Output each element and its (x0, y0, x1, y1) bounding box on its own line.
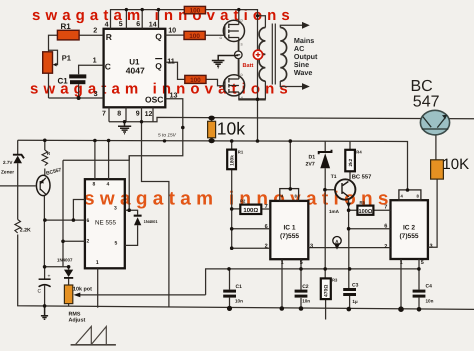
svg-text:BC 557: BC 557 (352, 173, 372, 180)
svg-text:(7)555: (7)555 (280, 233, 299, 240)
svg-text:5 to 15V: 5 to 15V (158, 133, 177, 139)
svg-text:3: 3 (114, 206, 117, 212)
svg-text:7: 7 (102, 111, 106, 118)
svg-text:R1: R1 (238, 150, 244, 155)
svg-text:Q: Q (155, 32, 162, 42)
svg-text:100: 100 (190, 8, 201, 15)
svg-text:Wave: Wave (294, 68, 313, 77)
svg-text:R: R (106, 32, 112, 42)
svg-text:100: 100 (190, 77, 201, 84)
svg-text:2.2K: 2.2K (20, 227, 31, 233)
svg-text:T1: T1 (331, 174, 337, 180)
svg-text:C1: C1 (58, 77, 69, 86)
svg-text:5: 5 (119, 21, 123, 28)
svg-text:1: 1 (96, 260, 99, 266)
svg-text:(7)555: (7)555 (399, 233, 418, 240)
svg-text:10n: 10n (235, 298, 243, 303)
svg-text:12: 12 (145, 111, 153, 118)
svg-text:S: S (241, 96, 243, 100)
svg-text:R1: R1 (61, 22, 72, 31)
svg-text:D1: D1 (309, 155, 316, 161)
svg-text:OSC: OSC (145, 94, 163, 104)
svg-text:6: 6 (265, 224, 268, 230)
svg-text:100Ω: 100Ω (243, 207, 258, 214)
svg-text:C3: C3 (352, 283, 359, 289)
svg-text:2V7: 2V7 (306, 162, 315, 168)
svg-text:9: 9 (136, 111, 140, 118)
svg-text:8: 8 (117, 111, 121, 118)
svg-text:1µ: 1µ (352, 299, 358, 304)
svg-text:P1: P1 (62, 53, 71, 62)
svg-text:R5: R5 (360, 200, 366, 205)
svg-text:Batt: Batt (243, 63, 254, 69)
svg-text:100: 100 (189, 33, 200, 40)
svg-text:5: 5 (300, 260, 303, 266)
svg-text:R2: R2 (240, 199, 246, 204)
svg-text:4: 4 (105, 22, 109, 29)
svg-text:10k pot: 10k pot (73, 287, 92, 293)
svg-text:Q: Q (155, 61, 162, 71)
svg-text:1: 1 (281, 260, 284, 266)
svg-text:C2: C2 (302, 284, 309, 290)
svg-text:547: 547 (413, 93, 440, 110)
svg-text:10: 10 (168, 25, 176, 34)
svg-text:11: 11 (167, 57, 175, 66)
svg-text:8: 8 (93, 182, 96, 188)
svg-text:10k: 10k (217, 119, 245, 139)
svg-text:100Ω: 100Ω (358, 209, 372, 215)
svg-text:4047: 4047 (126, 65, 145, 75)
svg-text:13: 13 (170, 90, 178, 99)
svg-text:3: 3 (430, 244, 433, 250)
svg-text:2: 2 (93, 25, 97, 34)
svg-text:BC: BC (411, 78, 433, 95)
svg-text:S: S (241, 43, 243, 47)
svg-text:2: 2 (265, 244, 268, 250)
svg-text:NE 555: NE 555 (95, 220, 117, 227)
svg-text:R4: R4 (356, 150, 362, 155)
svg-text:+: + (48, 274, 51, 280)
svg-text:C1: C1 (236, 284, 243, 290)
svg-text:5: 5 (115, 241, 118, 247)
svg-text:10n: 10n (426, 299, 434, 304)
svg-text:7: 7 (265, 204, 268, 210)
svg-text:Adjust: Adjust (69, 318, 86, 324)
svg-text:1mA: 1mA (329, 209, 340, 214)
svg-text:5: 5 (421, 260, 424, 266)
svg-text:7: 7 (384, 205, 387, 211)
svg-text:C4: C4 (426, 284, 433, 290)
svg-text:3: 3 (94, 89, 98, 98)
svg-text:C: C (38, 289, 42, 295)
svg-text:R3: R3 (332, 278, 338, 283)
svg-text:1: 1 (93, 56, 97, 65)
svg-text:1N4007: 1N4007 (57, 258, 73, 263)
svg-text:180k: 180k (230, 155, 236, 166)
svg-text:6: 6 (384, 224, 387, 230)
svg-text:10K: 10K (442, 156, 469, 173)
svg-text:6: 6 (136, 21, 140, 28)
svg-text:IC 1: IC 1 (283, 224, 295, 231)
svg-text:1: 1 (400, 260, 403, 266)
svg-text:3: 3 (310, 244, 313, 250)
svg-text:14: 14 (149, 22, 157, 29)
svg-text:2: 2 (384, 244, 387, 250)
svg-text:6: 6 (87, 218, 90, 224)
svg-text:2k2: 2k2 (348, 158, 353, 166)
svg-text:4: 4 (107, 182, 110, 188)
svg-text:IC 2: IC 2 (403, 224, 415, 231)
svg-text:10n: 10n (302, 298, 310, 303)
svg-text:2.7V: 2.7V (3, 160, 13, 165)
svg-text:Zener: Zener (1, 169, 14, 175)
svg-text:470Ω: 470Ω (324, 285, 330, 297)
svg-text:1N4001: 1N4001 (144, 219, 159, 224)
svg-text:2: 2 (87, 239, 90, 245)
svg-text:C: C (105, 62, 111, 72)
